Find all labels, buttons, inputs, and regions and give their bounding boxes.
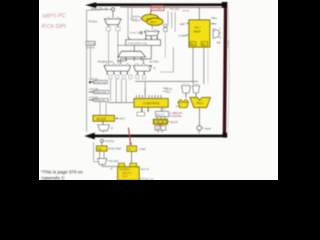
mux M6 below yellow box [98, 125, 109, 131]
wires from pin boxes down to mux row [109, 31, 118, 64]
registers box bottom tabs [190, 42, 196, 46]
svg-text:RegDst mux: RegDst mux [98, 60, 114, 64]
mux row left comb [104, 66, 130, 71]
svg-text:0- ALUSrc: 0- ALUSrc [170, 114, 183, 118]
red marks near yellow boxes column [159, 124, 162, 128]
red tick [159, 124, 162, 129]
node junction circle [111, 8, 114, 11]
squiggle bracket near border [227, 41, 228, 48]
wire memory data out down [207, 48, 209, 84]
wire B2 down to B3 [131, 151, 133, 163]
bracket corner top-right [222, 2, 227, 8]
yellow row Y3 [153, 119, 167, 124]
wire R1 bottom left long [117, 44, 126, 46]
svg-text:PC+4: PC+4 [87, 42, 95, 46]
wire R1 to funnel [133, 45, 135, 51]
wire M5 to B3 [102, 164, 118, 166]
svg-text:w.data: w.data [179, 33, 187, 37]
registers big yellow box [189, 20, 210, 47]
control legs below [142, 107, 162, 111]
wire below ALU [198, 108, 200, 126]
ALU result yellow box [93, 115, 114, 121]
bracket corner bottom-right [223, 133, 228, 138]
svg-text:Wr: Wr [202, 43, 205, 46]
long vertical wire from 4-box [89, 45, 91, 80]
svg-text:*This is page 370 on: *This is page 370 on [41, 169, 83, 174]
wires into registers from mux right column [210, 22, 213, 24]
svg-text:0-3: 0-3 [123, 175, 128, 179]
box W2 [155, 126, 166, 130]
small oval label (left of shift ovals) [131, 16, 141, 21]
field box row 3 [89, 99, 94, 101]
wire from node down to mux [112, 11, 114, 18]
svg-text:[3-0] ALU op: [3-0] ALU op [139, 177, 154, 180]
svg-text:ALU ctl: ALU ctl [141, 167, 150, 171]
small mux pair above ALU [182, 86, 191, 93]
red page border top [120, 6, 226, 8]
svg-text:Instr [25- 0]: Instr [25- 0] [91, 7, 107, 11]
svg-text:Op: Op [98, 147, 102, 151]
wires from arrow area down to instruction register [128, 7, 132, 36]
wire from node box down [164, 31, 166, 58]
shift-left-2 yellow oval 2 [147, 18, 163, 25]
field box row 1 [89, 81, 94, 83]
svg-text:Mw: Mw [217, 41, 221, 44]
node circle + register under ovals right [164, 24, 167, 27]
node circle below ALU [197, 126, 202, 131]
wires down from registers box to ALU area [193, 47, 204, 84]
svg-text:Sr: Sr [153, 66, 156, 70]
big black arrow (top, pointing left) [85, 2, 227, 8]
right mux [213, 29, 219, 38]
bus across [120, 58, 151, 60]
ticks [157, 117, 164, 119]
small box below control left [137, 112, 145, 116]
svg-text:PC [31]: PC [31] [170, 7, 180, 11]
page background [0, 0, 320, 180]
page edge shadow [228, 5, 230, 133]
svg-text:ALU.C: ALU.C [157, 112, 165, 116]
4 box + PC increment [86, 41, 95, 45]
svg-text:ALU.fl: ALU.fl [170, 120, 178, 124]
red annotation box PCSrc [151, 6, 164, 11]
ticks [157, 124, 162, 126]
svg-text:Read reg2: Read reg2 [95, 91, 107, 94]
svg-text:left 2: left 2 [151, 20, 157, 24]
svg-text:Instruction reg: Instruction reg [128, 41, 147, 45]
wire: top left horizontal to node [87, 9, 111, 10]
svg-text:MEM: MEM [194, 29, 202, 33]
yellow box B1 (ALUOp) [96, 146, 107, 151]
mux row right comb [134, 66, 152, 71]
long vertical wires down from pin boxes [111, 79, 127, 102]
svg-text:CONTROL: CONTROL [143, 102, 161, 106]
CONTROL output ticks row [136, 88, 161, 98]
wire R1 right down [150, 45, 152, 59]
svg-text:MIPS PC: MIPS PC [42, 13, 66, 20]
long wire right at y=72 [160, 47, 173, 72]
mux M2 output ticks [146, 36, 157, 39]
pin box 1 [106, 27, 110, 30]
svg-text:I-field: I-field [139, 147, 146, 151]
svg-text:Jump: Jump [182, 9, 189, 13]
ALU yellow trapezoid [190, 97, 210, 107]
three vertical wires top right [168, 11, 175, 32]
wires under B1 [100, 151, 104, 158]
ALU control big yellow box B3 [118, 167, 140, 180]
svg-text:ALUOp: ALUOp [106, 139, 115, 143]
mux M1 [105, 19, 122, 25]
field box row 2 [89, 91, 94, 93]
node circle + label top of bottom figure [100, 139, 103, 142]
svg-text:P.C# GPI: P.C# GPI [42, 24, 66, 30]
svg-text:Mem: Mem [211, 16, 217, 20]
mux M1 legs [109, 25, 118, 28]
funnel trapezoid [118, 51, 145, 57]
mux M2 [145, 31, 160, 35]
svg-text:[5-0] I-field: [5-0] I-field [108, 146, 121, 150]
svg-text:ALUSrc: ALUSrc [149, 60, 159, 64]
long wire right at y=81.5 [135, 80, 198, 82]
yellow box B2 (F field) [127, 146, 137, 151]
svg-text:ext.): ext.) [163, 89, 168, 93]
svg-text:(out): (out) [156, 126, 162, 130]
svg-text:M: M [111, 126, 113, 130]
shift-left-2 yellow oval 1 [142, 14, 159, 22]
instruction register R1 [126, 40, 161, 46]
red annotation line down to shift ovals [149, 11, 152, 16]
svg-text:F..: F.. [129, 147, 132, 151]
svg-text:ALU: ALU [120, 117, 125, 121]
svg-text:PCSrc: PCSrc [89, 20, 98, 24]
pin box 0 [116, 27, 120, 30]
svg-text:Appendix C: Appendix C [41, 176, 65, 180]
svg-text:Shift: Shift [132, 17, 137, 21]
wire PC to box top [198, 7, 200, 20]
ALU src yellow mux [178, 102, 189, 108]
svg-text:[31-28]: [31-28] [87, 46, 95, 49]
svg-text:ALU: ALU [197, 101, 204, 105]
red page border right [224, 2, 225, 137]
curved arrow into register left [128, 36, 131, 40]
svg-text:ctl: ctl [110, 167, 113, 171]
svg-text:ALUctl: ALUctl [96, 117, 106, 121]
pin boxes under left comb [109, 75, 112, 79]
svg-text:PCSrc: PCSrc [152, 7, 162, 11]
wire into control from left [108, 102, 134, 104]
CONTROL box [134, 99, 168, 108]
wires from field boxes to registers yellow box [100, 102, 106, 116]
ALU control big yellow box B3 top tabs [119, 163, 125, 167]
svg-text:addr: addr [180, 22, 185, 26]
pin boxes under right comb [136, 75, 139, 79]
mux M5 [98, 159, 107, 165]
svg-text:Read reg1: Read reg1 [95, 81, 107, 84]
svg-text:result: result [204, 126, 211, 130]
big black arrow 2 (bottom, pointing left) [84, 133, 227, 140]
label arrow right of yellow box [116, 117, 119, 119]
wire to mux below [102, 121, 104, 124]
svg-text:ALUOp: ALUOp [110, 159, 119, 163]
red annotation line crossing arrow2 [128, 128, 130, 144]
wire: left boundary vertical [86, 10, 88, 132]
funnel legs [126, 57, 141, 61]
register/W1 box under control [156, 111, 169, 116]
svg-text:PC: PC [191, 43, 195, 46]
